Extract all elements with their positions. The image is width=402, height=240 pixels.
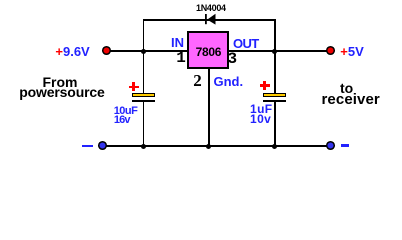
minus mark bottom-right: [341, 144, 349, 147]
junction dot OUT node: [272, 49, 277, 54]
wire left vertical drop (top rail to cap C1 top plate): [143, 19, 145, 93]
node output terminal (red): [325, 45, 336, 56]
op-amp regulator U1 7806 body: [187, 31, 229, 69]
pin 1: [176, 49, 186, 67]
wire output rail (regulator OUT to red terminal): [228, 50, 327, 52]
label IN: [171, 35, 184, 50]
label 1uF: [250, 102, 273, 116]
node input terminal (red): [101, 45, 112, 56]
label 10v: [250, 112, 271, 126]
junction dot bottom rail left: [141, 144, 146, 149]
label +9.6V: [55, 44, 89, 59]
minus mark bottom-left: [82, 145, 93, 147]
junction dot bottom rail center: [206, 144, 211, 149]
label 1N4004: [196, 3, 226, 13]
pin 3: [228, 50, 238, 68]
node bottom-left terminal (blue): [97, 140, 108, 151]
label 10uF: [114, 105, 138, 117]
wire right vertical drop (top rail to cap C2 top plate): [274, 19, 276, 93]
label 7806: [196, 45, 222, 59]
wire top rail: [143, 19, 276, 21]
pin 2: [193, 71, 202, 91]
capacitor C1 plus mark: [129, 86, 139, 89]
label +5V: [340, 44, 364, 59]
label OUT: [233, 36, 259, 51]
capacitor C1 bottom plate: [132, 100, 155, 102]
label to: [340, 80, 353, 96]
junction dot IN node: [141, 49, 146, 54]
wire bottom rail: [106, 145, 328, 147]
wire ground pin stub (pin 2 to bottom rail): [208, 69, 210, 146]
wire left vertical (cap C1 bottom plate to bottom rail): [143, 102, 145, 147]
wire right vertical (cap C2 bottom plate to bottom rail): [274, 102, 276, 147]
label powersource: [19, 84, 105, 100]
wire input rail (red terminal to regulator IN): [110, 50, 188, 52]
junction dot bottom rail right: [272, 144, 277, 149]
capacitor C2 bottom plate: [263, 100, 286, 102]
label Gnd.: [214, 74, 244, 89]
label receiver: [322, 91, 380, 108]
capacitor C1 top plate (yellow): [132, 93, 155, 97]
capacitor C2 top plate (yellow): [263, 93, 286, 97]
capacitor C2 plus mark: [260, 84, 270, 87]
diode D1 1N4004: [200, 10, 222, 28]
node bottom-right terminal (blue): [325, 140, 336, 151]
label 16v: [114, 114, 130, 126]
label From: [43, 74, 78, 90]
